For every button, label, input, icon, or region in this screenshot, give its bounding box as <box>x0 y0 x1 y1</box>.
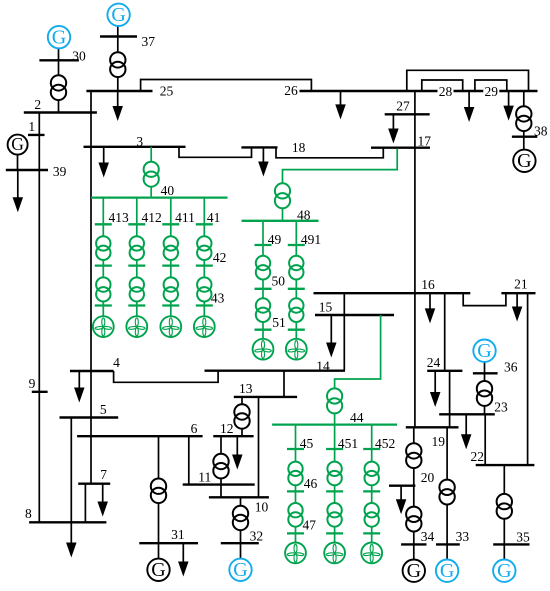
svg-text:49: 49 <box>268 232 282 247</box>
svg-text:21: 21 <box>514 277 528 292</box>
svg-text:G: G <box>497 560 511 582</box>
svg-text:26: 26 <box>284 83 298 98</box>
svg-text:36: 36 <box>504 359 518 374</box>
svg-text:411: 411 <box>175 210 195 225</box>
svg-text:G: G <box>52 27 66 49</box>
svg-text:27: 27 <box>396 99 410 114</box>
svg-text:39: 39 <box>53 164 67 179</box>
svg-text:29: 29 <box>485 84 499 99</box>
svg-text:51: 51 <box>272 315 286 330</box>
svg-text:22: 22 <box>471 449 485 464</box>
svg-text:15: 15 <box>319 299 333 314</box>
svg-text:413: 413 <box>108 210 129 225</box>
svg-text:452: 452 <box>375 436 395 451</box>
svg-text:G: G <box>151 559 165 581</box>
svg-text:43: 43 <box>211 291 225 306</box>
svg-text:28: 28 <box>439 84 453 99</box>
svg-text:5: 5 <box>100 402 107 417</box>
svg-text:41: 41 <box>207 210 221 225</box>
svg-text:50: 50 <box>271 274 285 289</box>
svg-text:24: 24 <box>427 355 441 370</box>
svg-text:17: 17 <box>418 133 432 148</box>
svg-text:451: 451 <box>338 436 358 451</box>
svg-text:4: 4 <box>113 355 120 370</box>
svg-text:9: 9 <box>29 376 36 391</box>
svg-text:20: 20 <box>421 470 435 485</box>
svg-text:35: 35 <box>516 530 530 545</box>
svg-text:10: 10 <box>255 499 269 514</box>
svg-text:3: 3 <box>136 134 143 149</box>
svg-text:8: 8 <box>25 506 32 521</box>
svg-text:18: 18 <box>292 140 306 155</box>
svg-text:G: G <box>517 150 531 172</box>
svg-text:23: 23 <box>494 400 508 415</box>
svg-text:2: 2 <box>34 97 41 112</box>
svg-text:47: 47 <box>303 518 317 533</box>
svg-text:30: 30 <box>72 48 86 63</box>
svg-text:G: G <box>111 4 125 26</box>
svg-text:G: G <box>11 134 24 154</box>
svg-text:G: G <box>407 560 421 582</box>
svg-text:44: 44 <box>350 410 364 425</box>
svg-text:34: 34 <box>421 529 435 544</box>
svg-text:42: 42 <box>213 250 227 265</box>
svg-text:32: 32 <box>250 529 264 544</box>
svg-text:33: 33 <box>456 529 470 544</box>
svg-text:7: 7 <box>100 467 107 482</box>
svg-text:1: 1 <box>28 119 35 134</box>
svg-text:48: 48 <box>297 208 311 223</box>
svg-text:14: 14 <box>316 358 330 373</box>
svg-text:491: 491 <box>301 232 321 247</box>
svg-text:19: 19 <box>432 434 446 449</box>
svg-text:37: 37 <box>142 34 156 49</box>
svg-text:G: G <box>440 560 454 582</box>
svg-text:13: 13 <box>239 381 253 396</box>
svg-text:G: G <box>233 559 247 581</box>
svg-text:45: 45 <box>300 436 314 451</box>
svg-text:6: 6 <box>191 421 198 436</box>
svg-text:38: 38 <box>534 124 548 139</box>
svg-text:40: 40 <box>161 183 175 198</box>
svg-text:16: 16 <box>421 277 435 292</box>
svg-text:31: 31 <box>171 527 185 542</box>
svg-text:46: 46 <box>304 476 318 491</box>
svg-text:12: 12 <box>220 421 234 436</box>
svg-text:412: 412 <box>141 210 161 225</box>
svg-text:G: G <box>477 340 491 362</box>
svg-text:25: 25 <box>160 83 174 98</box>
svg-text:11: 11 <box>198 470 211 485</box>
